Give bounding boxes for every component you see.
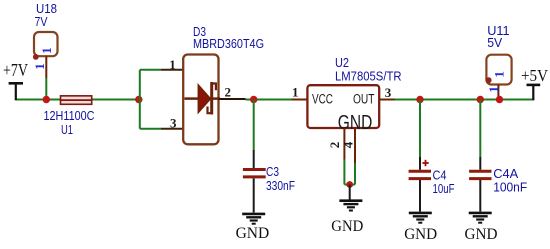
- U18 pin 1 number: [32, 63, 47, 70]
- wire C3 tap down: [253, 100, 255, 151]
- svg-text:12H1100C: 12H1100C: [44, 108, 95, 123]
- svg-text:1: 1: [32, 63, 47, 70]
- U2 pin 2 number: [327, 142, 342, 149]
- svg-text:3: 3: [385, 85, 392, 100]
- diode D3 value label MBRD360T4G: [193, 36, 264, 51]
- ground symbol below C3: [242, 214, 265, 224]
- diode D3 body box: [183, 55, 218, 145]
- GND net label below C3: [236, 225, 270, 242]
- U11 pin 1: [497, 85, 499, 100]
- GND net label below U2: [331, 218, 363, 235]
- D3 pin 1: [161, 69, 183, 71]
- connector U11 body: [486, 55, 511, 85]
- svg-text:5V: 5V: [487, 35, 502, 50]
- power port +7V: [3, 60, 28, 100]
- svg-text:VCC: VCC: [312, 92, 333, 107]
- svg-text:330nF: 330nF: [266, 178, 295, 193]
- D3 pin 1 number: [169, 57, 176, 72]
- U2 pin name GND (pins 2,4): [338, 112, 373, 134]
- junction at U11 pin: [496, 96, 503, 103]
- D3 pin 3: [161, 128, 183, 130]
- fuse U1 value label 12H1100C: [44, 108, 95, 123]
- svg-text:OUT: OUT: [353, 92, 375, 107]
- C4 value 10uF: [433, 181, 455, 196]
- U2 pin 4 number: [341, 141, 356, 148]
- svg-text:GND: GND: [404, 226, 437, 243]
- wire C4A tap down: [479, 100, 481, 158]
- ground symbol below C4A: [469, 213, 492, 223]
- junction at C4A tap: [477, 96, 484, 103]
- GND net label below C4: [404, 226, 437, 243]
- svg-text:1: 1: [486, 86, 501, 93]
- wire main input net (+7V rail): [16, 99, 140, 101]
- C3 value 330nF: [266, 178, 295, 193]
- svg-text:100nF: 100nF: [493, 180, 527, 195]
- connector U11 designator: [487, 23, 509, 50]
- capacitor C4A: [469, 157, 491, 212]
- regulator U2 designator: [335, 55, 349, 70]
- wire U2 ground lead: [349, 185, 351, 201]
- U2 pin 4: [354, 128, 356, 163]
- svg-text:7V: 7V: [35, 14, 48, 29]
- C4A designator: [493, 166, 518, 181]
- svg-text:1: 1: [39, 47, 54, 54]
- junction at D3 input: [135, 96, 142, 103]
- D3 pin 2: [219, 98, 246, 100]
- diode D3 designator: [193, 24, 206, 39]
- junction at U2 ground: [346, 181, 353, 188]
- GND net label below C4A: [465, 226, 498, 243]
- D3 pin 2 number: [225, 85, 232, 100]
- svg-text:3: 3: [170, 115, 177, 130]
- power port +5V: [521, 66, 549, 100]
- U11 pin hotspot dot: [486, 77, 492, 83]
- ground symbol below U2: [339, 201, 362, 211]
- svg-text:4: 4: [341, 141, 356, 148]
- fuse U1 designator: [61, 122, 73, 137]
- fuse U1 body: [61, 96, 92, 104]
- svg-text:U1: U1: [61, 122, 73, 137]
- svg-text:MBRD360T4G: MBRD360T4G: [193, 36, 264, 51]
- wire loop joining D3 pins 1 and 3: [140, 70, 161, 129]
- U18 pin hotspot dot: [33, 54, 39, 60]
- diode D3 schottky symbol: [185, 82, 221, 115]
- U11 pin 1 name: [492, 71, 507, 78]
- U2 pin 3 number: [385, 85, 392, 100]
- U2 pin 1 number: [292, 85, 299, 100]
- U18 pin 1 name: [39, 47, 54, 54]
- svg-text:LM7805S/TR: LM7805S/TR: [335, 69, 402, 84]
- junction at U18 pin: [43, 96, 50, 103]
- junction at C3 tap: [250, 96, 257, 103]
- U2 pin 3: [379, 99, 395, 101]
- junction at C4 tap: [416, 96, 423, 103]
- svg-text:1: 1: [292, 85, 299, 100]
- regulator U2 value LM7805S/TR: [335, 69, 402, 84]
- C3 designator: [266, 164, 279, 179]
- U2 pin name VCC: [312, 92, 333, 107]
- capacitor C4: [409, 157, 431, 212]
- wire output net (+5V rail): [395, 99, 533, 101]
- svg-text:2: 2: [225, 85, 232, 100]
- C4 designator: [433, 168, 447, 183]
- svg-text:C3: C3: [266, 164, 279, 179]
- connector U18 body: [34, 32, 58, 56]
- svg-text:1: 1: [492, 71, 507, 78]
- svg-text:+7V: +7V: [3, 60, 28, 80]
- U18 pin 1: [45, 56, 47, 99]
- U2 pin 1: [292, 99, 308, 101]
- svg-text:+5V: +5V: [521, 66, 549, 85]
- regulator U2 body box: [307, 85, 379, 128]
- wire D3 output to U2 input: [246, 99, 292, 101]
- U2 pin name OUT: [353, 92, 375, 107]
- svg-text:10uF: 10uF: [433, 181, 455, 196]
- svg-text:GND: GND: [465, 226, 498, 243]
- U11 pin 1 number: [486, 86, 501, 93]
- svg-text:GND: GND: [331, 218, 363, 235]
- ground symbol below C4: [409, 213, 432, 223]
- wire joining U2 pins 2 and 4: [344, 184, 355, 186]
- capacitor C3: [243, 150, 266, 213]
- svg-text:1: 1: [169, 57, 176, 72]
- U2 pin 2: [343, 128, 345, 185]
- svg-text:GND: GND: [236, 225, 270, 242]
- C4A value 100nF: [493, 180, 527, 195]
- D3 pin 3 number: [170, 115, 177, 130]
- connector U18 designator: [35, 1, 58, 29]
- capacitor C4 polarity plus: [422, 160, 428, 166]
- wire C4 tap down: [419, 100, 421, 158]
